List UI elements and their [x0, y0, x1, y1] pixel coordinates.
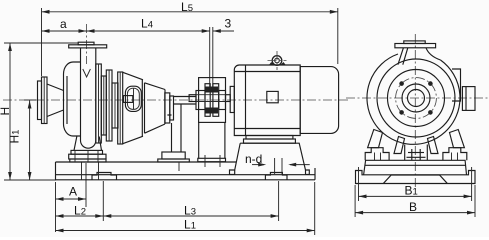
dim A	[56, 163, 87, 207]
end view lower channel	[356, 171, 476, 184]
svg-text:H1: H1	[8, 130, 22, 144]
gland stack	[96, 64, 118, 143]
centerline side view	[3, 99, 348, 101]
motor	[230, 51, 338, 136]
bolt lines pad1	[81, 162, 83, 180]
pump casing volute pipe	[81, 48, 96, 148]
end view side boxes	[452, 69, 475, 110]
svg-text:B1: B1	[405, 184, 418, 198]
baseplate side view	[56, 158, 316, 180]
dim L1	[56, 182, 315, 235]
end view legs	[368, 130, 465, 154]
base left edge	[55, 162, 57, 180]
svg-text:L1: L1	[184, 218, 196, 232]
bracket foot	[158, 105, 190, 172]
discharge centerline	[86, 24, 88, 64]
svg-text:3: 3	[225, 17, 232, 31]
coupling	[189, 84, 230, 117]
dim B	[355, 185, 475, 217]
bearing bracket collar	[118, 72, 123, 144]
end view center column	[405, 145, 428, 161]
bolt lines pad2	[274, 158, 276, 174]
svg-text:L5: L5	[181, 0, 193, 14]
svg-text:L3: L3	[184, 204, 196, 218]
end view discharge flange	[395, 41, 441, 65]
discharge flange	[69, 42, 107, 48]
dim a	[42, 17, 87, 33]
inspection square	[267, 91, 278, 102]
base right edge	[314, 168, 316, 180]
bearing bracket	[123, 72, 165, 143]
shaft	[174, 97, 197, 105]
bolt pad 2	[265, 173, 287, 180]
suction flange	[38, 77, 48, 124]
coupling support column	[198, 122, 226, 167]
bolt pad 1	[92, 173, 117, 180]
dim H1	[8, 100, 37, 180]
eyebolt	[272, 56, 282, 66]
svg-text:a: a	[60, 17, 67, 31]
base top rail	[56, 161, 237, 163]
svg-text:B: B	[409, 200, 417, 214]
bearing end covers	[165, 93, 174, 123]
base bottom rail	[56, 174, 316, 176]
motor body	[234, 65, 300, 136]
svg-text:L4: L4	[141, 17, 153, 31]
motor front plate	[230, 86, 234, 112]
fan cowl	[300, 67, 338, 134]
dim L5	[42, 0, 338, 76]
motor feet	[244, 136, 296, 144]
n-d callout	[245, 152, 310, 167]
svg-text:A: A	[69, 185, 77, 199]
svg-text:L2: L2	[74, 204, 86, 218]
svg-text:H: H	[0, 107, 12, 116]
end view feet	[365, 148, 467, 161]
pump casing body	[64, 62, 81, 136]
centerline end view	[346, 97, 489, 99]
motor stand	[230, 143, 310, 174]
dim L2	[56, 181, 104, 232]
casing circles	[367, 54, 460, 144]
dim H	[0, 43, 78, 180]
dim L4	[87, 17, 210, 33]
bolt dots	[399, 81, 404, 86]
dim B1	[359, 167, 472, 201]
bracket oil window	[123, 86, 141, 111]
dim L3	[103, 181, 278, 221]
suction cone	[47, 84, 64, 117]
coupling guard box	[199, 78, 226, 123]
vertical centerline end view	[414, 34, 416, 190]
end view upper slab	[364, 160, 467, 175]
dim 3 (coupling gap)	[210, 17, 234, 89]
pump pedestal	[69, 137, 106, 163]
